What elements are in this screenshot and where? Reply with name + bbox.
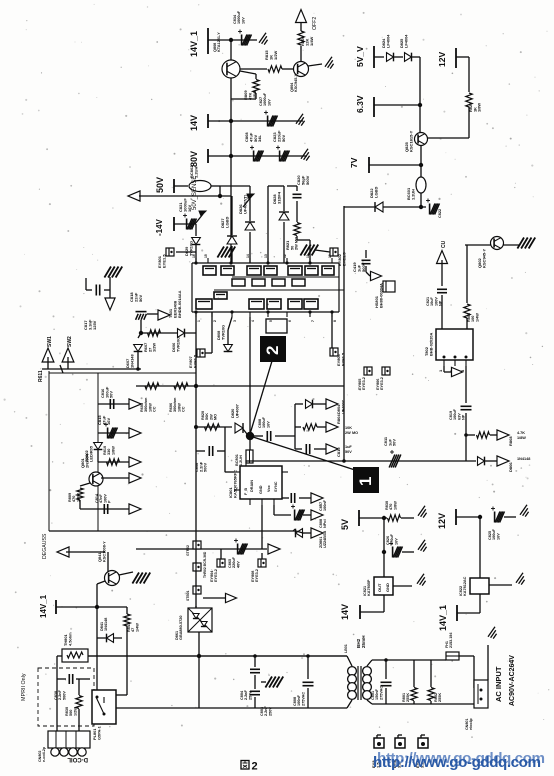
svg-text:KA7812AC: KA7812AC [463, 576, 467, 596]
bridge rectifier D861 GBA880-5720 [188, 608, 212, 632]
wire SW1 stub [47, 357, 49, 369]
T802 pin stubs [443, 360, 445, 366]
wire D829 to EY801 [195, 245, 197, 252]
wire relay link [116, 694, 127, 696]
wire pin11 up [309, 240, 311, 263]
ground (R830) [418, 506, 425, 516]
capacitor C803 2.2nF 250V [250, 690, 260, 692]
T601 inner horizontal 1 [232, 276, 339, 278]
svg-text:16V: 16V [266, 421, 270, 428]
connector EY807 EYE1.5 [197, 349, 205, 357]
svg-text:5: 5 [269, 320, 273, 322]
wire Q802 vert [466, 245, 468, 303]
capacitor C865 220uF 40V [237, 544, 239, 555]
thermistor TH801 4.5ohm [62, 649, 88, 662]
capacitor C821 1000uF 16V [186, 219, 188, 230]
svg-text:EYE3.2: EYE3.2 [362, 377, 366, 390]
transformer T601 top rail [192, 262, 339, 264]
wire pin12 up [283, 222, 285, 263]
svg-text:G5PA-1: G5PA-1 [96, 725, 101, 740]
CN802 pin circles [51, 748, 59, 756]
wire R830 row [384, 517, 387, 519]
svg-text:eloc4p: eloc4p [469, 718, 473, 730]
wire 12V down [479, 517, 481, 578]
junction 80V [229, 154, 233, 158]
wire left branch [96, 607, 98, 692]
svg-text:D806: D806 [508, 462, 513, 472]
wire R809b to row5 [79, 500, 81, 509]
wire T802 pin3 down [465, 366, 467, 403]
capacitor C815 47uF 16V [107, 428, 109, 439]
capacitor C816 100uF 50V [109, 399, 111, 409]
wire R830 to gnd [401, 517, 414, 519]
svg-text:6.3V: 6.3V [355, 95, 365, 113]
resistor R830b 500 1/2W [76, 696, 82, 709]
resistor R607 27 1/2W [148, 330, 161, 336]
wire R808 row [466, 434, 475, 436]
svg-text:1uF: 1uF [345, 445, 352, 449]
transistor Q802 KSC945-Y [491, 237, 504, 250]
diode D825 LF4004 [405, 53, 412, 62]
capacitor C817 3.3nF 125V [95, 285, 97, 296]
svg-text:EYE3.2: EYE3.2 [214, 569, 218, 582]
capacitor C823 220uF 50V [279, 151, 281, 162]
svg-text:e-coil-2p: e-coil-2p [42, 746, 46, 762]
svg-text:1: 1 [438, 369, 443, 372]
svg-text:13: 13 [264, 254, 268, 258]
wire R802a down [466, 318, 468, 329]
wire C806 right [217, 450, 225, 452]
svg-text:50V: 50V [155, 177, 165, 193]
wire 5V down [383, 518, 385, 552]
svg-text:5V_V: 5V_V [355, 46, 365, 67]
terminal 14V (bottom) [359, 605, 361, 619]
wire EY801 to T601 [176, 251, 196, 253]
svg-text:1/2W: 1/2W [273, 50, 278, 60]
junction 7V bus [419, 163, 423, 167]
MPRII dashed box [38, 668, 94, 726]
connector STB01 [193, 586, 201, 594]
resistor R809b 470 1/8W [77, 488, 83, 500]
wire C807 to arrow [299, 497, 312, 499]
svg-text:KA5Q0765RFC: KA5Q0765RFC [232, 470, 237, 498]
diode D607 1N4148 [134, 345, 143, 352]
svg-text:50V: 50V [392, 439, 397, 446]
connector EY806b EYE1.5 [330, 348, 338, 356]
resistor R809 47K [253, 80, 259, 93]
wire C817 left lead [86, 289, 92, 291]
connector SW2 [62, 348, 74, 362]
resistor R611 tick [60, 365, 63, 373]
svg-text:MO: MO [352, 431, 358, 435]
wire C820 bot [296, 201, 298, 222]
svg-text:UF4007: UF4007 [234, 404, 239, 418]
capacitor C830 2.2nF 500V [68, 674, 70, 684]
diode D828 31DF4 [279, 212, 289, 220]
wire C419 top [365, 250, 367, 258]
wire C818 to arrow [147, 313, 158, 315]
wire D828 top link [268, 185, 284, 187]
wire 50V_SENSE [139, 195, 231, 197]
svg-text:1: 1 [197, 320, 201, 322]
inductor BC802 1.2UH [189, 181, 211, 192]
wire C810 to arrow [314, 448, 326, 450]
connector EY804 EYE3.2 [217, 559, 225, 567]
chassis ground (C817) [104, 267, 111, 278]
wire R815 to Q804 [282, 68, 294, 70]
wire 80V-50V link [220, 185, 250, 187]
connector EY802 EYE1.5 [330, 248, 338, 256]
svg-text:DEGAUSS: DEGAUSS [42, 533, 48, 559]
wire ZD801 row [296, 531, 303, 533]
wire node down [249, 436, 251, 450]
wire 80V down [230, 156, 232, 196]
wire left down [56, 656, 58, 731]
junction sync/vert344 [342, 459, 346, 463]
junction 6.3V bus [418, 103, 422, 107]
svg-text:34L: 34L [257, 135, 262, 142]
junction AC1 [253, 654, 257, 658]
connector arrow C807 [311, 493, 323, 503]
line filter LB01 left winding [348, 667, 357, 676]
wire SW2 stub [67, 357, 69, 369]
wire pin13 vertical [267, 186, 269, 263]
svg-text:EYE3.2: EYE3.2 [380, 377, 384, 390]
svg-text:CC: CC [182, 406, 186, 412]
wire 50V down to transformer [230, 196, 232, 263]
diode D606 TVR10G [178, 329, 185, 338]
wire degauss loop [88, 655, 347, 657]
svg-text:2: 2 [213, 320, 217, 322]
junction AC2 [306, 654, 310, 658]
transistor Q825 KSC1815-Y [415, 133, 428, 146]
wire right branch down [126, 607, 128, 614]
transistor Q808 KTA1281-Y [222, 60, 240, 78]
wire R824 to Q825 [427, 137, 469, 139]
svg-text:KSC1008-Y: KSC1008-Y [101, 541, 106, 562]
svg-text:TVR10G: TVR10G [220, 325, 225, 340]
connector symbol 3 (bottom) [418, 738, 428, 748]
svg-text:F_B: F_B [244, 488, 248, 495]
wire D806 to arrow [485, 460, 498, 462]
ground (IC821) [417, 574, 424, 584]
wire pin4 down to node [249, 317, 251, 432]
junction node at 14V_1/Q808 [229, 38, 233, 42]
capacitor C808 47uF 50V [253, 151, 255, 162]
wire EY804 stub [220, 549, 222, 559]
connector arrow row5 [129, 504, 141, 514]
wire Q804 emitter [308, 64, 322, 66]
wire EY807 stub [205, 352, 212, 354]
wire CU down [441, 260, 443, 286]
junction SW rail [136, 367, 140, 371]
svg-text:BH88-00004A: BH88-00004A [378, 283, 383, 308]
chassis ground (right of T601) [300, 245, 307, 256]
wire Q802 top row [465, 244, 520, 246]
terminal 5V [358, 510, 360, 526]
wire R804 row [295, 426, 301, 428]
connector EY808 EYE3.2 [258, 559, 266, 567]
wire IC801 left vert [224, 451, 226, 472]
IC IC821 KA7805P [374, 577, 393, 595]
connector SW1 [42, 348, 54, 362]
capacitor C827 1000uF 16V [267, 116, 269, 127]
connector arrow row1 [129, 399, 141, 409]
ground (C825) [520, 505, 527, 515]
wire C825 to gnd [504, 516, 516, 518]
junction bridge/loop [197, 654, 201, 658]
svg-text:LGBD: LGBD [373, 187, 378, 198]
svg-text:GND: GND [385, 583, 390, 592]
wire main vertical (sync bus) [343, 206, 345, 461]
wire BC802 right [211, 185, 220, 187]
svg-text:CU: CU [441, 240, 447, 248]
capacitor C820 56pF 500V [293, 193, 302, 195]
wire C810 row [295, 448, 302, 450]
svg-text:2153.194: 2153.194 [449, 632, 453, 648]
svg-text:AC INPUT: AC INPUT [494, 666, 503, 702]
wire EY802 stub [315, 250, 330, 252]
T601 bottom pins [195, 312, 197, 317]
chassis ground (right edge) [517, 238, 524, 249]
svg-text:500V: 500V [62, 691, 66, 700]
svg-text:C810: C810 [336, 447, 341, 457]
wire fuse to CN801 [459, 655, 474, 657]
connector arrow row4 [129, 473, 141, 483]
capacitor C825 100uF 16V [494, 512, 496, 523]
wire IC822 gnd [489, 584, 512, 586]
wire C820 up to 186 [287, 185, 297, 187]
wire D607 branch [138, 333, 141, 338]
wire pin2 horiz [444, 371, 451, 373]
terminal 14V [207, 114, 209, 128]
wire R821 to pin11 [297, 239, 310, 241]
svg-text:SW2: SW2 [67, 336, 73, 347]
diode D820 UF4007 [235, 423, 243, 433]
svg-text:1/4W: 1/4W [309, 36, 314, 46]
T601 left edge [191, 263, 193, 312]
svg-text:50V: 50V [109, 391, 114, 398]
svg-text:R804: R804 [336, 414, 341, 424]
svg-text:275VAC: 275VAC [301, 692, 305, 706]
capacitor C834 1000uF 16V [241, 35, 243, 46]
wire C807 row [282, 497, 289, 499]
wire R830b up [78, 679, 80, 695]
svg-text:1.2UH: 1.2UH [239, 455, 243, 466]
diode D806c 1N4148 [478, 457, 485, 466]
wire R607 row [141, 332, 196, 334]
svg-text:6: 6 [288, 320, 292, 322]
svg-text:7: 7 [311, 320, 315, 322]
wire D804 row [295, 403, 303, 405]
capacitor C821b 10uF 100V NP [437, 288, 447, 290]
svg-text:1: 1 [356, 477, 375, 486]
T601 inner horizontal 2 [214, 289, 344, 291]
svg-text:15: 15 [204, 254, 208, 258]
svg-text:2W: 2W [345, 431, 351, 435]
connector CU [437, 251, 448, 264]
resistor R804 10K 2W MO [303, 424, 317, 430]
svg-text:TVR10G: TVR10G [188, 241, 193, 256]
svg-text:10K: 10K [345, 426, 352, 430]
svg-text:LB01: LB01 [344, 644, 348, 653]
capacitor C804 2.2nF 250V [250, 668, 260, 670]
resistor R808 4.7K 1/8W [477, 432, 490, 438]
relay PL801 G5PA-1 [92, 690, 116, 724]
svg-text:R611: R611 [38, 370, 44, 382]
wire R801 chain [413, 660, 415, 687]
diode D829 TVR10G [192, 238, 201, 245]
wire AC right top [372, 659, 446, 661]
wire DEGAUSS [66, 551, 105, 553]
capacitor C808 100uF 16V [266, 431, 268, 441]
connector arrow T802 [452, 367, 463, 376]
wire gnd stub [261, 681, 266, 683]
wire C818 down [140, 320, 142, 333]
wire Q808 emitter down [230, 78, 232, 121]
svg-text:KA7805P: KA7805P [367, 579, 371, 596]
chassis ground (C803/C804) [265, 677, 272, 688]
wire C830 right [76, 678, 90, 680]
connector arrow ZD801 [311, 528, 323, 538]
connector arrow STB [226, 593, 237, 602]
wire C803 mid [254, 675, 256, 689]
resistor R606 300ohm 1/8W [174, 383, 188, 389]
svg-text:NPol: NPol [323, 519, 327, 528]
svg-text:AC90V-AC264V: AC90V-AC264V [509, 655, 516, 706]
junction R606/vertical [194, 384, 198, 388]
resistor R820 56K 2W MO [205, 424, 220, 430]
wire C817 to gnd [109, 277, 111, 290]
svg-text:500V: 500V [305, 175, 310, 185]
wire C830 left [57, 678, 66, 680]
svg-text:1/2W: 1/2W [152, 343, 157, 352]
capacitor C810 1uF 50V [305, 444, 307, 454]
resistor R801 255K [411, 688, 417, 701]
inductor BC801 1.2UH [246, 450, 253, 463]
wire R802 chain [430, 660, 432, 687]
capacitor C419 1uF 500V [362, 259, 371, 261]
svg-text:16V: 16V [106, 418, 111, 425]
wire IC821 gnd [393, 585, 412, 587]
wire C806 up [224, 427, 226, 451]
wire AC right bottom [372, 703, 474, 705]
connector CN802 [48, 731, 90, 748]
svg-text:THR02 BCR-36D: THR02 BCR-36D [203, 551, 207, 578]
svg-text:MO: MO [214, 414, 218, 420]
wire 5V_V bus down [419, 57, 421, 132]
wire 5V to IC821 [383, 552, 385, 577]
capacitor C814 47nF 100V [103, 504, 105, 514]
T601 top pins [195, 258, 197, 263]
resistor R810 330 1/8W [107, 459, 120, 465]
svg-text:16V: 16V [496, 533, 500, 540]
wire R806 to OFF2 [300, 22, 302, 31]
terminal 14V_1 (top) [207, 28, 209, 54]
diode D822 LGBD [375, 202, 383, 212]
connector arrow C810 [326, 444, 338, 454]
connector arrow C808c [311, 510, 323, 520]
wire AC bottom rail [199, 707, 347, 709]
resistor R605 300ohm 1/8W [145, 383, 159, 389]
wire D808 link [228, 317, 232, 330]
wire relay to bottom rail [116, 707, 199, 709]
node main feedback dot [246, 432, 254, 440]
connector EY801 EYE1.5 [166, 248, 174, 256]
wire -14V down [195, 224, 197, 236]
connector arrow (C817) [105, 298, 115, 310]
capacitor C806 2.2nF 500V [208, 446, 210, 456]
svg-text:50V: 50V [138, 295, 143, 302]
ground (CN801) [488, 627, 495, 637]
capacitor C808c [294, 510, 296, 521]
wire LB01 bot left [347, 700, 352, 708]
svg-text:255K: 255K [406, 693, 410, 702]
wire zener row to box [49, 530, 296, 532]
junction 14V/Q808 [229, 119, 233, 123]
svg-text:3: 3 [233, 320, 237, 322]
wire pin2 down [211, 312, 213, 353]
connector THR02 BCR-36D [193, 563, 201, 571]
wire D828 up [283, 186, 285, 211]
fuse FH1 2153.194 [446, 652, 459, 660]
callout line to square 1 [250, 436, 355, 470]
wire R804 to arrow [317, 426, 326, 428]
ground (C826) [418, 540, 425, 550]
IC801 pin stubs [234, 471, 240, 473]
svg-text:1/8W: 1/8W [111, 446, 115, 455]
svg-text:50V: 50V [345, 450, 352, 454]
svg-text:1.2UH: 1.2UH [410, 189, 415, 200]
wire R820 row [196, 426, 232, 428]
svg-text:500V: 500V [361, 262, 366, 272]
resistor R841 47 1/4W [124, 614, 130, 626]
capacitor C819 100uF 63V NP [461, 405, 472, 407]
wire Q801 E row [101, 477, 130, 479]
svg-text:4.5ohm: 4.5ohm [67, 632, 72, 646]
wire R830b down [78, 709, 80, 718]
wire 7V bus down [420, 165, 422, 177]
svg-text:500V: 500V [203, 463, 208, 472]
wire D825 to bus [412, 56, 420, 58]
svg-text:250V: 250V [268, 707, 272, 716]
svg-text:5V: 5V [340, 519, 350, 530]
wire C819 down [465, 413, 467, 461]
svg-text:LF4004: LF4004 [385, 34, 390, 48]
wire R810 row [98, 461, 130, 463]
svg-text:1N4148: 1N4148 [517, 457, 530, 461]
wire D808 stub up [227, 330, 229, 344]
svg-text:EYE3.2: EYE3.2 [255, 569, 259, 582]
IC IC801 KA5Q0765RFC [240, 466, 282, 499]
svg-text:8: 8 [333, 320, 337, 322]
svg-text:OUT: OUT [377, 583, 382, 592]
svg-text:1/4W: 1/4W [475, 313, 479, 322]
connector symbol 2 (bottom) [395, 738, 405, 748]
T601 inner windings [232, 279, 245, 286]
terminal 14V_1 (degauss) [55, 600, 57, 614]
svg-text:7V: 7V [349, 157, 359, 168]
connector EY805 EYE3.2 [364, 367, 372, 375]
wire 14V to IC821 [383, 595, 385, 612]
wire C801 chain [385, 660, 387, 679]
wire SW rail [42, 368, 141, 370]
wire C419 to arrow [366, 272, 370, 276]
T802 inner dots [443, 356, 446, 359]
zener ZD802 LED/R05 [94, 443, 103, 450]
svg-text:14: 14 [246, 254, 250, 258]
wire D607 to SW rail [137, 352, 139, 369]
